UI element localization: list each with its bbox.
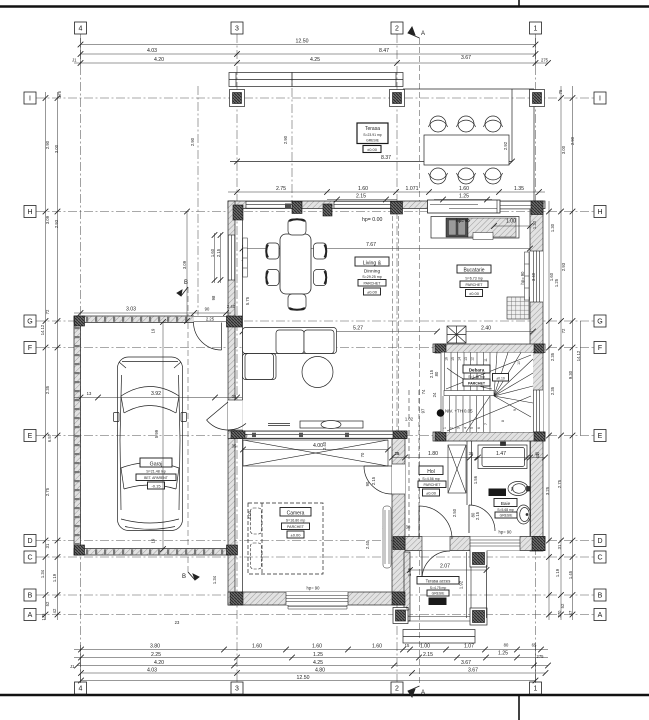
svg-text:90: 90	[205, 307, 210, 312]
camera window sill	[288, 605, 347, 609]
svg-text:2.93: 2.93	[561, 262, 566, 271]
house exterior right wall	[530, 201, 543, 551]
svg-text:1.25: 1.25	[498, 651, 508, 657]
svg-text:1.34: 1.34	[40, 569, 45, 578]
column I3	[230, 90, 245, 107]
column D hol left	[393, 537, 405, 550]
grid axis I	[36, 97, 594, 99]
svg-text:35: 35	[232, 394, 237, 399]
svg-text:30: 30	[406, 525, 411, 530]
svg-text:4.20: 4.20	[154, 660, 164, 666]
svg-text:±0.00: ±0.00	[469, 291, 480, 296]
svg-text:35: 35	[469, 451, 474, 456]
svg-text:2.92: 2.92	[503, 141, 508, 150]
svg-text:72: 72	[45, 309, 50, 314]
aux axis x292	[291, 72, 293, 201]
section marker B bottom	[188, 572, 199, 580]
axis bubbles bottom	[75, 682, 542, 694]
stair/hol wall	[433, 432, 545, 441]
svg-text:C: C	[597, 555, 602, 562]
svg-text:E: E	[598, 433, 603, 440]
grid axis 1	[535, 34, 537, 682]
svg-text:19: 19	[151, 538, 156, 543]
svg-text:7.67: 7.67	[366, 242, 376, 248]
sheet border top	[0, 0, 649, 7]
svg-text:4: 4	[79, 686, 83, 693]
svg-text:1.45: 1.45	[568, 570, 573, 579]
svg-text:3.03: 3.03	[126, 307, 136, 313]
svg-text:Living &: Living &	[363, 260, 382, 266]
label Bucatarie	[457, 265, 491, 273]
svg-text:3: 3	[457, 427, 461, 429]
dining table	[280, 234, 311, 294]
svg-text:S=16.80 mp: S=16.80 mp	[286, 519, 305, 523]
svg-text:3.00: 3.00	[561, 145, 566, 154]
svg-text:1: 1	[443, 427, 447, 429]
svg-text:PARCHET: PARCHET	[424, 483, 442, 487]
sofa	[243, 328, 337, 380]
svg-text:15: 15	[405, 643, 410, 648]
section marker A top	[408, 27, 420, 38]
window camera bottom	[286, 592, 348, 605]
svg-text:±0.00: ±0.00	[291, 532, 302, 537]
1.47 dim over tub	[478, 457, 527, 459]
svg-text:72: 72	[561, 328, 566, 333]
dining chair left 1	[266, 243, 279, 259]
svg-text:S=4.56 mp: S=4.56 mp	[422, 477, 439, 481]
svg-text:A: A	[421, 31, 425, 37]
garage entry door arc	[194, 323, 222, 351]
svg-text:±0.00: ±0.00	[426, 490, 437, 495]
svg-text:1.34: 1.34	[212, 575, 217, 584]
aux axis x198	[197, 86, 199, 320]
dining chair right 1	[314, 243, 327, 259]
terasa acces pillar boxes	[393, 550, 487, 625]
pantry tiles	[507, 297, 529, 319]
svg-text:31: 31	[557, 544, 562, 549]
svg-text:12.50: 12.50	[296, 39, 309, 45]
svg-text:1.30: 1.30	[532, 220, 537, 229]
terrace chair top	[429, 116, 448, 132]
svg-text:1.19: 1.19	[555, 568, 560, 577]
svg-text:hp= 90: hp= 90	[307, 586, 321, 591]
camera door opening	[364, 464, 405, 494]
garage top wall	[74, 316, 231, 323]
window baie bottom	[470, 537, 520, 551]
svg-text:1.60: 1.60	[372, 644, 382, 650]
left dimension lines	[46, 92, 58, 620]
svg-text:E: E	[28, 433, 33, 440]
svg-text:3.67: 3.67	[468, 668, 478, 674]
living/camera interior wall	[228, 431, 407, 439]
svg-text:12: 12	[471, 357, 475, 361]
svg-text:1.071: 1.071	[406, 186, 419, 192]
section line B	[187, 287, 189, 572]
svg-text:D: D	[27, 538, 32, 545]
column H1	[531, 201, 543, 215]
svg-text:B: B	[184, 280, 188, 286]
column F1 stair right	[534, 344, 544, 353]
terrace chair bottom	[484, 168, 503, 184]
svg-text:52: 52	[45, 601, 50, 606]
svg-text:2: 2	[450, 427, 454, 429]
svg-text:5.27: 5.27	[353, 326, 363, 332]
svg-text:275: 275	[541, 58, 549, 63]
svg-text:90: 90	[365, 481, 370, 486]
svg-text:3.67: 3.67	[461, 55, 471, 61]
label Hol	[419, 466, 443, 475]
column H3	[233, 205, 243, 220]
bottom dimension lines	[74, 645, 548, 683]
label Terasa	[357, 123, 388, 144]
garage bottom wall	[74, 549, 231, 556]
grid axis H	[36, 211, 594, 213]
svg-text:GRESIE: GRESIE	[432, 591, 446, 595]
svg-text:2.40: 2.40	[365, 540, 370, 549]
svg-text:Camera: Camera	[287, 510, 305, 516]
column B3 camera	[230, 592, 243, 605]
svg-text:1.47: 1.47	[496, 451, 506, 457]
section marker B top	[177, 287, 188, 296]
svg-text:2: 2	[395, 686, 399, 693]
radiator camera	[383, 506, 391, 568]
window right wall stair	[530, 390, 543, 432]
svg-text:±0.00: ±0.00	[433, 599, 444, 604]
terrace slab edge	[230, 89, 534, 201]
svg-text:7: 7	[484, 423, 488, 425]
svg-text:PARCHET: PARCHET	[364, 281, 382, 285]
svg-text:2.90: 2.90	[45, 140, 50, 149]
svg-text:1.60: 1.60	[312, 644, 322, 650]
svg-text:4: 4	[79, 26, 83, 33]
bath sink	[517, 505, 531, 524]
svg-text:80: 80	[471, 512, 476, 517]
svg-text:52: 52	[560, 603, 565, 608]
svg-text:PARCHET: PARCHET	[287, 525, 305, 529]
svg-text:GRESIE: GRESIE	[366, 139, 380, 143]
svg-text:50: 50	[511, 487, 515, 491]
column E1 stair right	[534, 432, 545, 441]
house exterior left wall	[228, 201, 235, 605]
svg-text:3: 3	[235, 26, 239, 33]
svg-text:-0.15: -0.15	[151, 483, 161, 488]
svg-text:Debara: Debara	[469, 367, 485, 372]
hol+baie bottom wall	[398, 537, 545, 551]
svg-text:42: 42	[52, 608, 57, 613]
svg-text:S=23.91 mp: S=23.91 mp	[363, 133, 381, 137]
svg-text:12.50: 12.50	[297, 675, 310, 681]
bed	[248, 503, 323, 574]
svg-text:1.56: 1.56	[473, 475, 478, 484]
label Camera	[280, 508, 311, 517]
column I2	[390, 90, 405, 107]
svg-text:2.40: 2.40	[322, 441, 327, 450]
svg-text:8.37: 8.37	[381, 155, 391, 161]
label Baie	[489, 489, 507, 497]
svg-text:9: 9	[513, 409, 517, 411]
living dims	[243, 249, 534, 332]
terasa acces east glazing	[467, 552, 472, 618]
grid axis 2	[396, 34, 398, 682]
svg-text:1.25: 1.25	[313, 652, 323, 658]
kitchen sink	[446, 218, 468, 237]
svg-text:1.60: 1.60	[252, 644, 262, 650]
svg-text:25: 25	[395, 451, 400, 456]
svg-text:G: G	[27, 319, 32, 326]
svg-text:±0.10: ±0.10	[496, 376, 505, 380]
camera east wall	[392, 439, 405, 593]
column E2 wall end	[393, 431, 407, 439]
west wall aux dim lines	[187, 212, 221, 322]
svg-text:2.25: 2.25	[206, 317, 215, 322]
column B2 camera	[392, 592, 405, 605]
house west door to garage	[207, 400, 246, 441]
coffee table	[302, 357, 333, 388]
svg-text:2.15: 2.15	[423, 652, 433, 658]
column top wall mid2	[323, 204, 332, 216]
svg-text:11: 11	[484, 358, 488, 362]
svg-text:8.47: 8.47	[379, 48, 389, 54]
svg-text:80: 80	[504, 643, 509, 648]
sheet border bottom titleblock	[0, 695, 649, 720]
svg-text:hp= 0.00: hp= 0.00	[362, 217, 382, 223]
svg-text:2.15: 2.15	[475, 511, 480, 520]
car	[114, 357, 187, 531]
garage door opening top	[194, 316, 226, 324]
grid axis B	[36, 594, 594, 596]
svg-text:15: 15	[451, 357, 455, 361]
svg-text:3.00: 3.00	[54, 144, 59, 153]
svg-text:2.40: 2.40	[481, 326, 491, 332]
svg-text:Baie: Baie	[501, 501, 511, 507]
garage dims	[74, 313, 242, 398]
svg-text:B: B	[182, 574, 186, 580]
svg-text:NIV. +TH 0.05: NIV. +TH 0.05	[445, 409, 473, 414]
window right wall kitchen	[530, 251, 543, 302]
svg-text:2.75: 2.75	[557, 479, 562, 488]
svg-text:1.35: 1.35	[514, 186, 524, 192]
svg-text:S=4.75 mp: S=4.75 mp	[430, 586, 447, 590]
svg-text:3.09: 3.09	[45, 215, 50, 224]
svg-text:275: 275	[537, 654, 545, 659]
svg-text:J1: J1	[72, 58, 77, 63]
svg-text:24: 24	[432, 392, 437, 397]
svg-text:2.15: 2.15	[371, 476, 376, 485]
left wall inner face	[242, 209, 244, 593]
living-hol door	[419, 506, 452, 539]
svg-text:4.25: 4.25	[313, 660, 323, 666]
svg-text:3.25: 3.25	[545, 486, 550, 495]
svg-text:6: 6	[477, 427, 481, 429]
stairs	[441, 353, 533, 433]
svg-text:3.67: 3.67	[461, 660, 471, 666]
svg-text:Dinning: Dinning	[364, 269, 381, 275]
svg-text:19: 19	[151, 328, 156, 333]
grid axis 4	[80, 34, 82, 682]
svg-text:B: B	[598, 593, 603, 600]
svg-text:Hol: Hol	[427, 469, 435, 475]
svg-text:BET. APARENT: BET. APARENT	[144, 476, 168, 480]
svg-text:4.80: 4.80	[315, 668, 325, 674]
column E stair left	[435, 432, 446, 441]
tv console	[268, 421, 363, 429]
garage wall ticks	[75, 317, 224, 555]
svg-text:1.25: 1.25	[459, 194, 469, 200]
svg-text:1.25: 1.25	[554, 278, 559, 287]
right dimension lines	[549, 86, 581, 620]
svg-text:23: 23	[175, 620, 180, 625]
grid axis G	[36, 320, 594, 322]
terasa acces south edge	[404, 617, 471, 622]
svg-text:F: F	[598, 345, 602, 352]
svg-text:A: A	[598, 612, 603, 619]
svg-text:2.35: 2.35	[550, 386, 555, 395]
svg-text:4: 4	[464, 427, 468, 429]
svg-text:4.03: 4.03	[147, 48, 157, 54]
column F stair left	[435, 344, 446, 353]
column H aux	[292, 202, 302, 214]
axis bubbles top	[75, 22, 542, 34]
svg-text:2.90: 2.90	[190, 137, 195, 146]
svg-text:5.99: 5.99	[154, 429, 159, 438]
grid axis D	[36, 540, 594, 542]
svg-text:47: 47	[568, 610, 573, 615]
kitchen worktop hatched	[468, 218, 516, 237]
radiator kitchen	[525, 252, 530, 300]
svg-text:31: 31	[45, 543, 50, 548]
svg-text:1.00: 1.00	[506, 219, 516, 225]
svg-text:97: 97	[421, 408, 426, 413]
toilet	[508, 482, 530, 496]
grid axis 3	[236, 34, 238, 682]
svg-text:1.80: 1.80	[428, 451, 438, 457]
svg-text:2.75: 2.75	[45, 487, 50, 496]
svg-text:4.03: 4.03	[147, 668, 157, 674]
baie wall inner line	[530, 441, 532, 536]
svg-text:70: 70	[360, 452, 365, 457]
interior dims above top wall	[228, 192, 545, 200]
wardrobe X camera	[243, 440, 388, 466]
svg-text:S=6.73 mp: S=6.73 mp	[465, 277, 482, 281]
column D4 garage corner	[75, 545, 85, 555]
svg-text:74: 74	[421, 389, 426, 394]
window top wall left	[246, 201, 292, 209]
svg-text:40: 40	[535, 453, 540, 458]
dining chair top	[288, 219, 306, 235]
axis bubbles left	[24, 92, 36, 621]
svg-text:J1: J1	[70, 664, 75, 669]
camera dims	[243, 450, 545, 571]
garage 5.99 dim line	[162, 322, 164, 549]
svg-text:80: 80	[434, 371, 439, 376]
label Living	[355, 257, 389, 266]
svg-text:3.92: 3.92	[151, 391, 161, 397]
svg-text:hp= 90: hp= 90	[456, 218, 470, 223]
terasa acces west wall	[404, 552, 410, 621]
column I1	[530, 90, 545, 107]
svg-text:B: B	[28, 593, 33, 600]
svg-text:3.40: 3.40	[531, 272, 536, 281]
svg-text:1.07: 1.07	[464, 644, 474, 650]
svg-text:2.75: 2.75	[276, 186, 286, 192]
svg-text:3.09: 3.09	[182, 260, 187, 269]
svg-text:I: I	[29, 96, 31, 103]
grid axes dash-dot	[36, 34, 594, 686]
svg-text:2.35: 2.35	[45, 385, 50, 394]
svg-text:75: 75	[558, 89, 563, 94]
terrace chair top	[484, 116, 503, 132]
svg-text:±0.00: ±0.00	[367, 289, 378, 294]
svg-text:hp= 90: hp= 90	[499, 530, 513, 535]
grid axis E	[36, 435, 594, 437]
svg-text:14.12: 14.12	[40, 324, 45, 335]
svg-text:2.07: 2.07	[440, 564, 450, 570]
svg-text:40: 40	[244, 433, 249, 438]
column D1 baie right	[532, 537, 545, 551]
grid axis C	[36, 556, 594, 558]
svg-text:GRESIE: GRESIE	[500, 513, 514, 517]
terrace chair top	[457, 116, 476, 132]
svg-text:2.15: 2.15	[356, 194, 366, 200]
svg-text:175: 175	[57, 90, 62, 98]
svg-text:A: A	[421, 690, 425, 696]
dining chair left 2	[266, 270, 279, 286]
svg-text:1: 1	[534, 26, 538, 33]
svg-text:±0.00: ±0.00	[367, 147, 378, 152]
svg-text:16: 16	[445, 357, 449, 361]
svg-text:A: A	[28, 612, 33, 619]
svg-text:5.75: 5.75	[245, 296, 250, 305]
svg-text:PARCHET: PARCHET	[466, 283, 484, 287]
svg-text:1: 1	[534, 686, 538, 693]
svg-text:Terasa acces: Terasa acces	[426, 578, 451, 583]
column H2	[391, 202, 403, 215]
column G3 garage/house	[227, 316, 243, 327]
garage left wall	[74, 316, 81, 555]
svg-text:2.25: 2.25	[151, 652, 161, 658]
svg-text:S=1.40 mp: S=1.40 mp	[468, 375, 485, 379]
svg-text:S=29.25 mp: S=29.25 mp	[362, 275, 381, 279]
column G4 garage corner	[75, 316, 85, 326]
svg-text:D: D	[597, 538, 602, 545]
top dimension lines	[74, 38, 548, 66]
window left wall living	[228, 235, 235, 280]
baie west partition	[467, 441, 472, 505]
dining chair bottom	[288, 294, 306, 310]
svg-text:PARCHET: PARCHET	[468, 381, 486, 385]
svg-text:13: 13	[464, 357, 468, 361]
terrace chair bottom	[429, 168, 448, 184]
svg-text:35: 35	[232, 444, 237, 449]
svg-text:13: 13	[87, 391, 92, 396]
section line A	[419, 38, 421, 686]
svg-text:175: 175	[41, 613, 46, 621]
column E3 wall end	[231, 431, 245, 439]
svg-text:370: 370	[557, 610, 562, 618]
X brace hol	[448, 445, 466, 493]
house exterior top wall	[228, 201, 545, 209]
window top wall mid	[334, 201, 392, 209]
dining chair right 2	[314, 270, 327, 286]
svg-text:1.45: 1.45	[407, 567, 412, 576]
kitchen/stair wall	[433, 344, 545, 353]
label Terasa acces	[417, 577, 459, 585]
kitchen counter	[431, 217, 519, 239]
svg-text:1.60: 1.60	[358, 186, 368, 192]
svg-text:47: 47	[405, 606, 410, 611]
kitchen 1.00 dim over counter	[494, 225, 530, 227]
axis bubbles right	[594, 92, 606, 621]
